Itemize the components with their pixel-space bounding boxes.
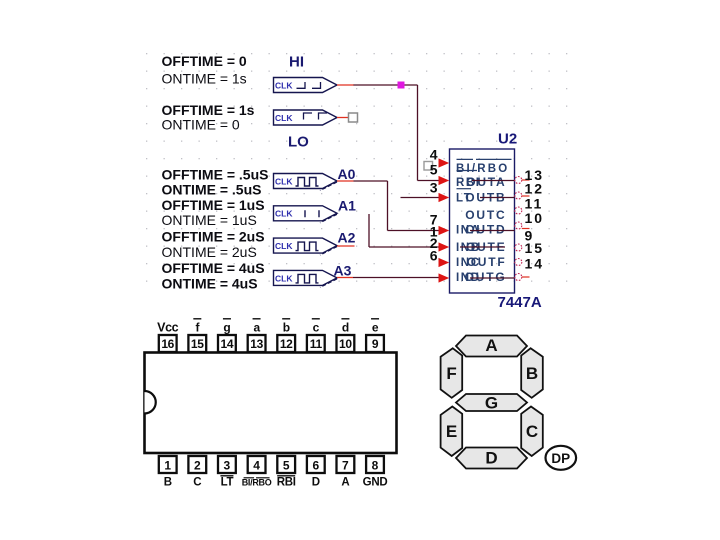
svg-text:DP: DP [551, 451, 570, 466]
svg-text:CLK: CLK [275, 273, 293, 283]
svg-text:g: g [223, 321, 230, 335]
pin name OUTC [465, 208, 506, 222]
svg-text:OFFTIME = 1uS: OFFTIME = 1uS [162, 197, 265, 213]
svg-text:B: B [526, 364, 538, 383]
svg-text:CLK: CLK [275, 241, 293, 251]
wire A3 to pin6 IND [337, 277, 439, 279]
svg-text:BI/RBO: BI/RBO [242, 478, 272, 488]
svg-text:14: 14 [525, 256, 545, 272]
svg-text:11: 11 [310, 337, 323, 351]
clock source A3 [274, 270, 338, 287]
svg-text:HI: HI [289, 54, 304, 71]
svg-text:BI/RBO: BI/RBO [456, 163, 509, 175]
svg-text:LO: LO [288, 134, 309, 151]
svg-text:8: 8 [372, 458, 379, 472]
pin names INC / OUTF [456, 255, 507, 269]
svg-text:12: 12 [525, 181, 545, 197]
svg-text:ONTIME = .5uS: ONTIME = .5uS [162, 182, 262, 198]
svg-text:15: 15 [191, 337, 204, 351]
junction on HI net [398, 82, 405, 89]
svg-text:9: 9 [372, 337, 379, 351]
svg-text:ONTIME = 2uS: ONTIME = 2uS [162, 244, 257, 260]
svg-text:2: 2 [194, 458, 201, 472]
wire LT to pin3 [401, 197, 440, 199]
svg-text:A2: A2 [338, 230, 356, 246]
svg-text:7447A: 7447A [498, 294, 542, 311]
stub A2 unconnected [337, 245, 355, 247]
parameter text block [162, 53, 269, 292]
svg-text:7: 7 [342, 458, 349, 472]
unconnected marker pin 4 [424, 162, 433, 171]
7seg DP [546, 446, 577, 470]
svg-text:c: c [313, 321, 320, 335]
DIP pin 3 [218, 456, 236, 489]
output stubs [522, 180, 530, 277]
svg-text:ONTIME = 0: ONTIME = 0 [162, 117, 240, 133]
DIP pin 11 [307, 319, 325, 352]
svg-text:b: b [283, 321, 290, 335]
svg-text:10: 10 [339, 337, 352, 351]
svg-text:CLK: CLK [275, 176, 293, 186]
svg-text:A0: A0 [338, 166, 356, 182]
DIP pin 8 [363, 456, 388, 489]
svg-text:6: 6 [312, 458, 319, 472]
clock source HI [274, 78, 338, 93]
svg-text:12: 12 [280, 337, 293, 351]
DIP pin 9 [366, 319, 384, 352]
svg-text:Vcc: Vcc [157, 321, 178, 335]
svg-text:B: B [164, 477, 172, 489]
svg-text:OUTD: OUTD [465, 223, 506, 237]
svg-text:6: 6 [430, 248, 438, 264]
svg-text:14: 14 [221, 337, 234, 351]
input pin arrows [439, 158, 450, 282]
svg-text:C: C [526, 422, 538, 441]
7seg segment B [521, 348, 543, 398]
svg-text:5: 5 [283, 458, 290, 472]
7seg segment D [456, 448, 527, 469]
svg-text:OUTC: OUTC [465, 208, 506, 222]
svg-text:OFFTIME = 2uS: OFFTIME = 2uS [162, 229, 265, 245]
svg-text:D: D [312, 477, 320, 489]
svg-text:13: 13 [250, 337, 263, 351]
svg-text:10: 10 [525, 210, 545, 226]
pin names INB / OUTE [456, 240, 507, 254]
svg-text:F: F [446, 364, 456, 383]
7seg segment A [456, 336, 527, 357]
svg-text:OUTF: OUTF [467, 255, 507, 269]
7seg segment G [456, 394, 527, 413]
svg-text:GND: GND [363, 477, 388, 489]
clock source LO [274, 110, 338, 125]
pin names IND / OUTG [456, 270, 515, 284]
svg-text:E: E [446, 422, 457, 441]
unconnected terminal square after LO [337, 113, 358, 122]
svg-text:U2: U2 [498, 131, 517, 148]
svg-text:A: A [485, 336, 497, 355]
DIP notch [145, 391, 156, 414]
svg-text:G: G [485, 394, 498, 413]
IC U2 7447A body [450, 149, 515, 293]
pin name BI/RBO with overline [456, 159, 512, 175]
svg-text:D: D [485, 449, 497, 468]
svg-text:3: 3 [430, 180, 438, 196]
DIP pin 5 [277, 456, 296, 489]
DIP pin 15 [188, 319, 206, 352]
DIP pin 14 [218, 319, 236, 352]
7seg segment E [441, 407, 463, 457]
svg-text:e: e [372, 321, 379, 335]
svg-text:4: 4 [430, 147, 438, 163]
svg-text:LT: LT [221, 477, 234, 489]
clock source A0 [274, 174, 338, 191]
DIP pin 10 [337, 319, 355, 352]
svg-text:ONTIME = 1uS: ONTIME = 1uS [162, 212, 257, 228]
svg-text:OFFTIME = 4uS: OFFTIME = 4uS [162, 260, 265, 276]
svg-text:a: a [253, 321, 260, 335]
wire A0 to pin7 INA [337, 181, 439, 231]
DIP pin 2 [188, 456, 206, 489]
svg-text:A1: A1 [338, 198, 356, 214]
right pin numbers [525, 167, 545, 272]
svg-text:16: 16 [161, 337, 174, 351]
svg-text:d: d [342, 321, 349, 335]
svg-text:CLK: CLK [275, 113, 293, 123]
DIP pin 7 [337, 456, 355, 489]
svg-text:A3: A3 [334, 263, 352, 279]
svg-text:ONTIME = 1s: ONTIME = 1s [162, 71, 247, 87]
left pin numbers [430, 147, 438, 264]
svg-text:C: C [193, 477, 201, 489]
svg-text:CLK: CLK [275, 80, 293, 90]
svg-text:OUTA: OUTA [466, 175, 506, 189]
svg-text:OFFTIME = .5uS: OFFTIME = .5uS [162, 167, 269, 183]
DIP pin 4 [242, 456, 272, 488]
7seg segment F [441, 348, 463, 398]
7seg segment C [521, 407, 543, 457]
svg-text:OFFTIME = 0: OFFTIME = 0 [162, 53, 247, 69]
DIP-16 package body [145, 353, 397, 454]
DIP pin 1 [159, 456, 177, 489]
clock source A2 [274, 238, 338, 255]
DIP pin 12 [277, 319, 295, 352]
pin names INA / OUTD [456, 223, 515, 237]
DIP pin 13 [248, 319, 266, 352]
clock source A1 [274, 206, 338, 223]
DIP pin 6 [307, 456, 325, 489]
svg-text:1: 1 [164, 458, 171, 472]
svg-text:CLK: CLK [275, 209, 293, 219]
svg-text:OUTG: OUTG [465, 270, 507, 284]
pin names LT / OUTB [456, 189, 515, 205]
svg-text:A: A [341, 477, 349, 489]
wire A1 to pin1 INB [369, 214, 439, 247]
pin names RBI / OUTA [456, 171, 515, 190]
svg-text:4: 4 [253, 458, 260, 472]
svg-text:5: 5 [430, 162, 438, 178]
wire HI to pin5 RBI [337, 85, 439, 181]
output bubbles [515, 177, 522, 281]
svg-text:RBI: RBI [277, 477, 296, 489]
svg-text:3: 3 [224, 458, 231, 472]
DIP pin 16 [157, 321, 178, 353]
svg-text:15: 15 [525, 240, 545, 256]
svg-text:ONTIME = 4uS: ONTIME = 4uS [162, 276, 258, 292]
svg-text:f: f [195, 321, 200, 335]
